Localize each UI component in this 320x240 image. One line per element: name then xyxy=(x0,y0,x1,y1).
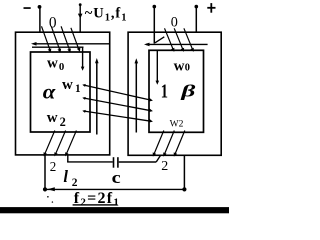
svg-text:l: l xyxy=(63,167,68,186)
svg-text:1: 1 xyxy=(161,81,168,103)
terminal dot right1 xyxy=(153,5,157,9)
terminal dot right2 xyxy=(195,5,199,9)
svg-text:0: 0 xyxy=(171,15,178,31)
winding w0 right lead into window xyxy=(156,50,160,85)
core A outer outline xyxy=(16,32,110,155)
underline of f2=2f1 xyxy=(73,204,118,205)
winding 2 left turns xyxy=(45,131,76,154)
stray dot 2 xyxy=(52,201,53,202)
winding w0 left lead into window xyxy=(81,47,85,71)
svg-text:w: w xyxy=(47,56,58,72)
svg-text:w: w xyxy=(174,58,185,74)
source arrow ~U1,f1 xyxy=(78,3,83,32)
winding w0 right lead jog xyxy=(155,37,164,43)
svg-text:α: α xyxy=(43,82,57,104)
stray dot 1 xyxy=(47,196,49,198)
winding w0 right wire with arrow xyxy=(144,43,208,47)
svg-text:2: 2 xyxy=(161,158,168,173)
capacitor C plates xyxy=(113,157,119,168)
terminal label minus xyxy=(24,7,31,9)
winding w1 link wire 2 xyxy=(82,97,153,112)
core A inner window xyxy=(31,52,91,132)
winding w1 link wire 1 xyxy=(82,84,153,102)
svg-text:2: 2 xyxy=(72,177,78,189)
winding w0 right turns xyxy=(165,28,193,49)
svg-text:2: 2 xyxy=(50,159,57,174)
svg-text:0: 0 xyxy=(59,61,64,73)
winding w0 left turns xyxy=(42,26,79,50)
current arrow on bus xyxy=(47,187,55,191)
bottom border bar xyxy=(0,207,229,213)
core B inner window xyxy=(149,50,204,132)
core B outer outline xyxy=(128,32,221,155)
svg-text:0: 0 xyxy=(185,63,190,74)
svg-text:1: 1 xyxy=(75,83,81,95)
output bus wire xyxy=(45,188,184,190)
flux arrow left core xyxy=(95,58,99,135)
capacitor right lead xyxy=(119,161,157,163)
svg-text:0: 0 xyxy=(49,14,57,31)
capacitor left lead xyxy=(67,161,113,163)
capacitor lead riser xyxy=(156,155,160,162)
svg-text:w: w xyxy=(62,77,73,93)
capacitor tap wire xyxy=(67,155,69,162)
junction dot right xyxy=(182,187,186,191)
wire from right terminal 2 xyxy=(195,7,197,33)
terminal dot left xyxy=(38,5,42,9)
svg-text:2: 2 xyxy=(60,115,66,129)
wire from left terminal xyxy=(39,7,41,33)
svg-text:W2: W2 xyxy=(170,119,184,130)
output wire right xyxy=(183,155,185,189)
flux arrow right core xyxy=(135,58,139,132)
svg-text:w: w xyxy=(47,110,58,126)
winding 2 right turns xyxy=(154,131,185,154)
svg-text:β: β xyxy=(180,82,196,101)
svg-text:c: c xyxy=(112,168,122,187)
wire from right terminal 1 xyxy=(153,7,155,44)
junction dot left xyxy=(43,187,47,191)
winding w1 link wire 3 xyxy=(82,110,153,123)
winding w0 left second wire xyxy=(32,46,84,48)
terminal label plus xyxy=(207,3,215,13)
output wire left xyxy=(44,155,46,190)
winding w0 left wire with arrow xyxy=(31,42,110,46)
